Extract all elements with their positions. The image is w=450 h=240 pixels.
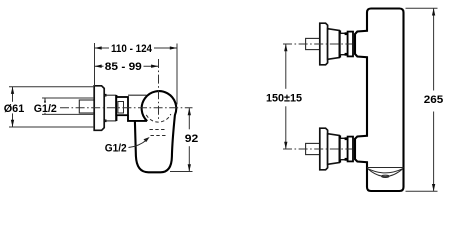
mixer body and handle outline (left view)	[135, 91, 176, 172]
top neck ticks	[345, 32, 348, 35]
top inlet neck	[340, 33, 348, 54]
svg-text:G1/2: G1/2	[34, 103, 57, 115]
G1/2 arrows	[44, 98, 46, 114]
top inlet pipe stub	[306, 38, 320, 49]
union cylinder edges	[104, 94, 116, 96]
top inlet adapter	[328, 29, 340, 60]
text 92	[184, 129, 200, 146]
hidden outlet thread dashed lines	[150, 129, 167, 131]
svg-text:92: 92	[185, 133, 199, 145]
dimension 110-124 extension lines	[94, 43, 96, 86]
O61 arrows	[12, 87, 14, 127]
supply pipe stub (left view)	[79, 100, 94, 113]
flange junction nubs	[104, 94, 107, 97]
svg-text:265: 265	[424, 94, 444, 106]
top inlet flange	[320, 23, 328, 65]
svg-text:110 - 124: 110 - 124	[111, 43, 153, 55]
svg-text:Ø61: Ø61	[4, 103, 25, 115]
bottom inlet shoulder face	[339, 135, 341, 162]
union nut	[116, 97, 128, 115]
bottom inlet centerline	[283, 148, 352, 150]
bottom inlet ring	[348, 137, 353, 162]
union shoulder face	[115, 95, 117, 121]
text 85-99	[104, 61, 144, 71]
text 265	[423, 91, 445, 112]
top inlet shoulder face	[339, 30, 341, 57]
text 150+-15	[265, 89, 303, 107]
dimension G1/2 extension lines	[42, 97, 94, 99]
dimension 265 extension lines	[406, 7, 438, 9]
centerline horizontal (pipe axis)	[60, 107, 193, 109]
dimension line 265	[433, 8, 435, 191]
top inlet ring	[348, 32, 353, 57]
body boss bottom step	[128, 115, 147, 121]
hidden cartridge dashed arc	[146, 114, 171, 122]
text 110-124	[109, 43, 154, 53]
text G1/2 left	[33, 103, 57, 113]
bottom inlet neck	[340, 138, 348, 159]
dimension line 85-99	[95, 65, 159, 67]
centerline vertical (cartridge axis)	[158, 59, 160, 120]
bottom neck ticks	[345, 137, 348, 140]
nut inner detail	[118, 102, 124, 114]
bottom inlet pipe stub	[306, 143, 320, 154]
wall flange (escutcheon, left view)	[94, 86, 104, 131]
dimension line 92	[188, 108, 190, 172]
svg-text:150±15: 150±15	[266, 92, 302, 104]
aerator ellipse	[382, 175, 390, 177]
bottom inlet adapter	[328, 134, 340, 165]
svg-text:85 - 99: 85 - 99	[105, 61, 142, 73]
bottom inlet flange	[320, 128, 328, 170]
svg-text:G1/2: G1/2	[105, 142, 127, 154]
text O61	[3, 102, 25, 114]
mixer body column (front view) with inlet bosses	[355, 9, 404, 192]
body boss top edge	[128, 94, 146, 96]
dimension line 110-124	[95, 47, 178, 49]
leader G1/2 to outlet thread	[129, 140, 147, 148]
dimension O61 extension lines	[9, 86, 94, 88]
dimension 92 extension line bottom	[170, 171, 193, 173]
dimension 150+-15 line	[285, 44, 287, 149]
outlet section line	[367, 167, 404, 169]
outlet mouth arcs	[368, 169, 403, 173]
top inlet centerline	[283, 43, 352, 45]
